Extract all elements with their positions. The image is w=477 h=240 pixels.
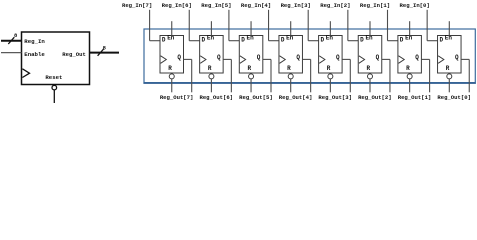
svg-text:R: R	[406, 65, 410, 72]
svg-text:Reg_Out[5]: Reg_Out[5]	[239, 94, 273, 101]
svg-text:Reg_Out[3]: Reg_Out[3]	[318, 94, 352, 101]
svg-text:Q: Q	[336, 54, 340, 61]
svg-text:D: D	[281, 36, 285, 43]
svg-text:D: D	[202, 36, 206, 43]
svg-text:R: R	[446, 65, 450, 72]
svg-text:Reg_In[5]: Reg_In[5]	[201, 2, 231, 9]
svg-text:Q: Q	[455, 54, 459, 61]
svg-text:Q: Q	[376, 54, 380, 61]
svg-text:D: D	[241, 36, 245, 43]
svg-text:R: R	[168, 65, 172, 72]
svg-text:Reg_In[2]: Reg_In[2]	[320, 2, 350, 9]
svg-text:D: D	[400, 36, 404, 43]
svg-text:Q: Q	[217, 54, 221, 61]
svg-text:Reg_In[4]: Reg_In[4]	[241, 2, 271, 9]
svg-text:En: En	[207, 34, 215, 41]
svg-text:En: En	[247, 34, 255, 41]
svg-text:En: En	[326, 34, 334, 41]
svg-text:D: D	[321, 36, 325, 43]
svg-text:Q: Q	[296, 54, 300, 61]
svg-text:Reg_In[0]: Reg_In[0]	[400, 2, 430, 9]
svg-text:Reg_In[3]: Reg_In[3]	[281, 2, 311, 9]
svg-text:Q: Q	[177, 54, 181, 61]
svg-text:Q: Q	[257, 54, 261, 61]
svg-text:En: En	[286, 34, 294, 41]
svg-text:Reg_Out: Reg_Out	[62, 51, 86, 58]
svg-text:R: R	[366, 65, 370, 72]
svg-text:R: R	[287, 65, 291, 72]
svg-text:D: D	[360, 36, 364, 43]
svg-text:Reg_In[7]: Reg_In[7]	[122, 2, 152, 9]
svg-text:Reg_In[6]: Reg_In[6]	[162, 2, 192, 9]
svg-text:R: R	[208, 65, 212, 72]
svg-text:Reg_Out[2]: Reg_Out[2]	[358, 94, 392, 101]
svg-text:Reg_Out[0]: Reg_Out[0]	[437, 94, 471, 101]
svg-text:D: D	[162, 36, 166, 43]
svg-text:En: En	[445, 34, 453, 41]
svg-text:Reg_In: Reg_In	[24, 38, 45, 45]
svg-text:En: En	[365, 34, 373, 41]
svg-text:Reg_Out[6]: Reg_Out[6]	[199, 94, 233, 101]
svg-text:Q: Q	[415, 54, 419, 61]
svg-text:Enable: Enable	[24, 51, 45, 58]
svg-text:En: En	[167, 34, 175, 41]
svg-text:Reg_Out[4]: Reg_Out[4]	[279, 94, 313, 101]
svg-text:D: D	[439, 36, 443, 43]
svg-text:Reg_Out[7]: Reg_Out[7]	[160, 94, 194, 101]
svg-text:R: R	[327, 65, 331, 72]
svg-text:Reg_Out[1]: Reg_Out[1]	[398, 94, 432, 101]
svg-text:R: R	[248, 65, 252, 72]
svg-text:Reg_In[1]: Reg_In[1]	[360, 2, 390, 9]
svg-text:En: En	[405, 34, 413, 41]
svg-text:Reset: Reset	[45, 74, 62, 81]
